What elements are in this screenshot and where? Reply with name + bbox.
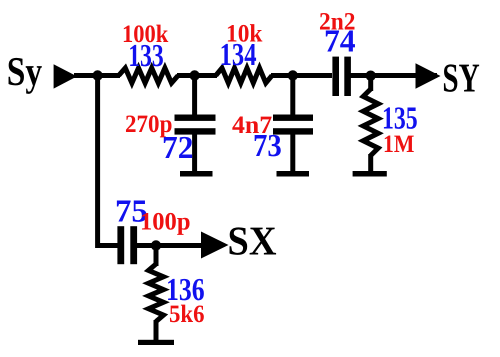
capacitor C74 plates xyxy=(332,57,339,96)
wire between C74 and SY arrow xyxy=(351,73,438,78)
ground under R136 xyxy=(138,340,174,345)
resistor R133 xyxy=(119,68,178,83)
wire node C down to C73 xyxy=(290,76,295,117)
svg-text:Sy: Sy xyxy=(7,48,43,94)
wire C73 to ground xyxy=(290,134,295,172)
capacitor C75 plates xyxy=(117,226,124,264)
wire main input segment xyxy=(74,73,120,78)
wire R136 to ground xyxy=(154,320,159,342)
wire node E down to R136 xyxy=(154,246,159,267)
svg-text:100p: 100p xyxy=(140,208,191,235)
wire R135 to ground xyxy=(368,154,373,172)
svg-text:72: 72 xyxy=(162,129,193,165)
svg-text:SY: SY xyxy=(442,55,479,101)
node E xyxy=(151,240,161,250)
ground under R135 xyxy=(353,171,387,177)
svg-text:73: 73 xyxy=(253,127,282,163)
resistor R136 xyxy=(149,264,164,322)
output arrow SX xyxy=(201,232,229,259)
svg-text:134: 134 xyxy=(220,36,257,72)
wire node B down to C72 xyxy=(192,76,197,117)
wire C75 to SX arrow xyxy=(137,243,203,248)
wire between R133 and R134 xyxy=(177,73,217,78)
svg-text:135: 135 xyxy=(382,99,418,135)
ground under C73 xyxy=(277,171,310,177)
svg-text:SX: SX xyxy=(228,218,277,264)
wire C72 to ground xyxy=(192,134,197,172)
capacitor C73 plates xyxy=(273,115,313,121)
svg-text:74: 74 xyxy=(324,23,356,59)
ground under C72 xyxy=(180,171,213,177)
svg-text:133: 133 xyxy=(128,37,164,73)
wire node A down and right to C75 xyxy=(98,76,118,246)
node B xyxy=(189,70,199,80)
input arrow Sy xyxy=(54,64,77,88)
svg-text:5k6: 5k6 xyxy=(169,301,205,328)
wire between R134 and C74 xyxy=(271,73,332,78)
resistor R135 xyxy=(363,89,378,156)
wire node D down to R135 xyxy=(368,76,373,92)
svg-text:1M: 1M xyxy=(383,131,414,158)
node D xyxy=(366,71,376,81)
resistor R134 xyxy=(216,68,272,83)
node A xyxy=(92,70,102,80)
capacitor C72 plates xyxy=(175,115,216,121)
output arrow SY xyxy=(416,63,441,88)
node C xyxy=(288,70,298,80)
